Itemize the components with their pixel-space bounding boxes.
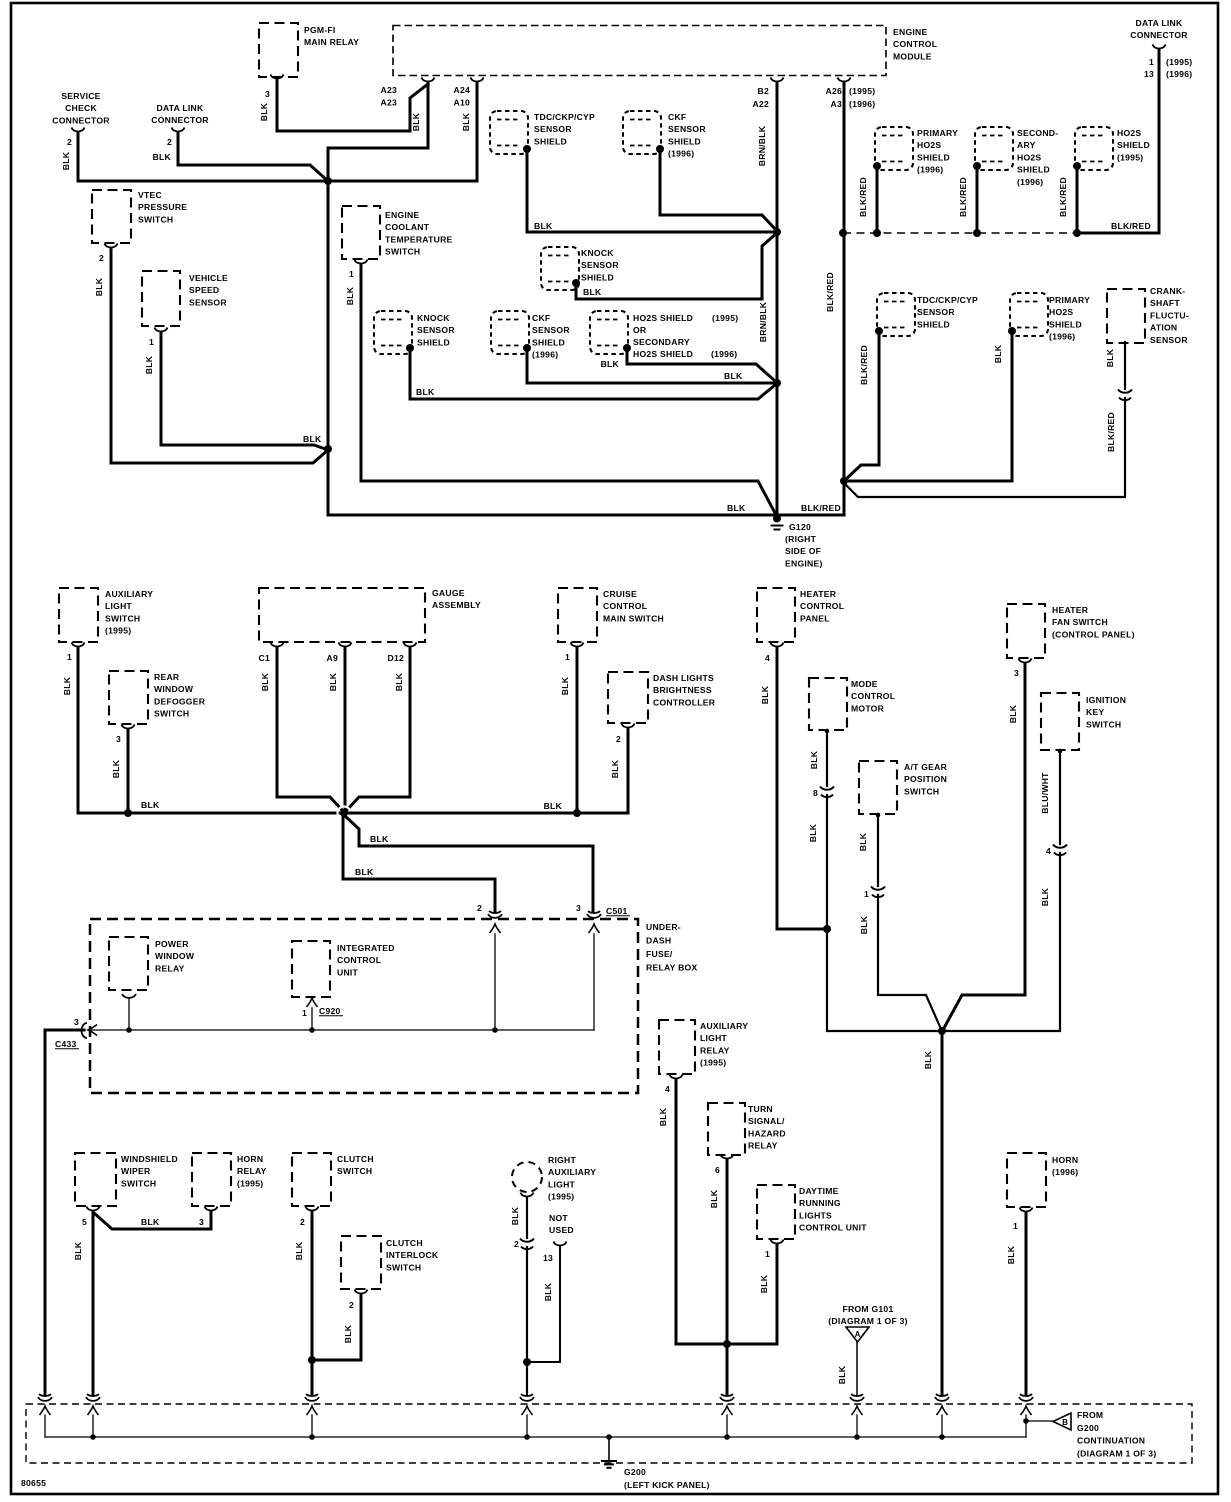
svg-text:CRANK-: CRANK- <box>1150 286 1185 296</box>
svg-text:SWITCH: SWITCH <box>121 1178 156 1188</box>
svg-text:BLK: BLK <box>370 834 389 844</box>
svg-text:CONTROL: CONTROL <box>893 39 937 49</box>
svg-text:SENSOR: SENSOR <box>917 307 955 317</box>
svg-text:DASH LIGHTS: DASH LIGHTS <box>653 673 714 683</box>
svg-text:SWITCH: SWITCH <box>1086 719 1121 729</box>
svg-text:PRIMARY: PRIMARY <box>1049 295 1090 305</box>
svg-text:BLK: BLK <box>1105 348 1115 367</box>
svg-text:BLK: BLK <box>727 503 746 513</box>
svg-text:SERVICE: SERVICE <box>61 91 100 101</box>
svg-text:KNOCK: KNOCK <box>581 248 614 258</box>
svg-text:CLUTCH: CLUTCH <box>337 1154 374 1164</box>
svg-text:BLK: BLK <box>62 676 72 695</box>
svg-text:SHIELD: SHIELD <box>1017 165 1050 175</box>
svg-text:HEATER: HEATER <box>800 589 837 599</box>
svg-text:1: 1 <box>1013 1221 1018 1231</box>
svg-text:HO2S SHIELD: HO2S SHIELD <box>633 313 693 323</box>
svg-text:2: 2 <box>349 1300 354 1310</box>
svg-text:C501: C501 <box>606 906 628 916</box>
svg-text:(1996): (1996) <box>917 165 943 175</box>
svg-text:DATA LINK: DATA LINK <box>157 103 205 113</box>
svg-text:(RIGHT: (RIGHT <box>785 534 817 544</box>
svg-text:BLK/RED: BLK/RED <box>1058 177 1068 217</box>
svg-text:RELAY: RELAY <box>748 1141 778 1151</box>
svg-text:AUXILIARY: AUXILIARY <box>548 1167 596 1177</box>
svg-text:BLK/RED: BLK/RED <box>858 177 868 217</box>
svg-text:BLK: BLK <box>601 359 620 369</box>
svg-text:HORN: HORN <box>1052 1155 1078 1165</box>
svg-text:SHAFT: SHAFT <box>1150 298 1180 308</box>
svg-text:G200: G200 <box>1077 1423 1099 1433</box>
svg-text:6: 6 <box>715 1165 720 1175</box>
svg-text:CHECK: CHECK <box>65 103 97 113</box>
svg-text:G120: G120 <box>789 522 811 532</box>
svg-text:BLU/WHT: BLU/WHT <box>1040 772 1050 814</box>
svg-text:BLK/RED: BLK/RED <box>958 177 968 217</box>
svg-text:BLK: BLK <box>303 434 322 444</box>
svg-text:BLK: BLK <box>141 1217 160 1227</box>
svg-text:BLK: BLK <box>993 344 1003 363</box>
svg-text:BLK: BLK <box>859 915 869 934</box>
svg-text:A23: A23 <box>380 98 397 108</box>
svg-text:HO2S SHIELD: HO2S SHIELD <box>633 349 693 359</box>
svg-text:BLK: BLK <box>610 759 620 778</box>
svg-text:RELAY: RELAY <box>237 1166 267 1176</box>
svg-text:INTEGRATED: INTEGRATED <box>337 943 395 953</box>
svg-text:BLK: BLK <box>61 151 71 170</box>
svg-text:BLK: BLK <box>724 371 743 381</box>
svg-text:(1996): (1996) <box>668 149 694 159</box>
svg-text:SENSOR: SENSOR <box>668 124 706 134</box>
svg-text:PANEL: PANEL <box>800 613 830 623</box>
svg-text:SHIELD: SHIELD <box>668 136 701 146</box>
svg-text:VEHICLE: VEHICLE <box>189 273 228 283</box>
svg-text:SWITCH: SWITCH <box>138 214 173 224</box>
svg-text:3: 3 <box>199 1217 204 1227</box>
svg-text:BLK: BLK <box>543 1282 553 1301</box>
svg-text:HO2S: HO2S <box>917 140 941 150</box>
svg-text:SENSOR: SENSOR <box>532 325 570 335</box>
svg-text:UNIT: UNIT <box>337 967 359 977</box>
svg-text:BLK: BLK <box>260 672 270 691</box>
svg-text:BLK: BLK <box>808 823 818 842</box>
svg-text:SECOND-: SECOND- <box>1017 128 1058 138</box>
svg-text:ATION: ATION <box>1150 323 1177 333</box>
svg-text:2: 2 <box>616 734 621 744</box>
svg-text:FROM G101: FROM G101 <box>843 1304 894 1314</box>
svg-text:1: 1 <box>565 652 570 662</box>
svg-text:C433: C433 <box>55 1039 77 1049</box>
svg-text:CRUISE: CRUISE <box>603 589 637 599</box>
svg-text:2: 2 <box>514 1239 519 1249</box>
svg-text:A/T GEAR: A/T GEAR <box>904 762 948 772</box>
svg-text:SHIELD: SHIELD <box>1049 319 1082 329</box>
svg-text:SWITCH: SWITCH <box>385 247 420 257</box>
svg-text:BLK: BLK <box>544 801 563 811</box>
svg-text:WINDOW: WINDOW <box>155 951 195 961</box>
svg-text:1: 1 <box>864 889 869 899</box>
svg-text:COOLANT: COOLANT <box>385 222 430 232</box>
svg-text:BLK: BLK <box>153 152 172 162</box>
svg-text:13: 13 <box>1144 69 1154 79</box>
svg-text:BLK: BLK <box>394 672 404 691</box>
svg-text:TEMPERATURE: TEMPERATURE <box>385 234 453 244</box>
svg-text:CONTROL: CONTROL <box>800 601 844 611</box>
svg-text:CONTROL: CONTROL <box>337 955 381 965</box>
svg-text:BLK: BLK <box>809 750 819 769</box>
svg-text:BRN/BLK: BRN/BLK <box>758 301 768 342</box>
svg-text:A: A <box>855 1330 861 1339</box>
svg-text:USED: USED <box>549 1225 574 1235</box>
svg-text:BLK/RED: BLK/RED <box>801 503 841 513</box>
svg-text:BLK: BLK <box>411 112 421 131</box>
svg-text:HO2S: HO2S <box>1049 307 1073 317</box>
svg-text:GAUGE: GAUGE <box>432 588 465 598</box>
svg-text:KNOCK: KNOCK <box>417 313 450 323</box>
svg-text:(1995): (1995) <box>548 1192 574 1202</box>
svg-text:2: 2 <box>67 137 72 147</box>
svg-text:CONTROL: CONTROL <box>851 691 895 701</box>
svg-text:PRIMARY: PRIMARY <box>917 128 958 138</box>
svg-text:BLK: BLK <box>510 1206 520 1225</box>
svg-text:OR: OR <box>633 325 647 335</box>
svg-text:1: 1 <box>149 337 154 347</box>
svg-text:BLK: BLK <box>923 1050 933 1069</box>
svg-text:AUXILIARY: AUXILIARY <box>105 589 153 599</box>
svg-text:SHIELD: SHIELD <box>581 272 614 282</box>
svg-text:BLK: BLK <box>560 676 570 695</box>
svg-text:ENGINE: ENGINE <box>385 210 419 220</box>
svg-text:(1995): (1995) <box>1117 152 1143 162</box>
svg-text:SWITCH: SWITCH <box>105 613 140 623</box>
svg-text:RELAY BOX: RELAY BOX <box>646 963 697 973</box>
svg-text:(1995): (1995) <box>105 626 131 636</box>
svg-text:SPEED: SPEED <box>189 285 219 295</box>
svg-text:SIDE OF: SIDE OF <box>785 546 821 556</box>
svg-text:5: 5 <box>82 1217 87 1227</box>
svg-text:2: 2 <box>167 137 172 147</box>
svg-text:BLK: BLK <box>1008 704 1018 723</box>
svg-text:BLK: BLK <box>355 867 374 877</box>
svg-text:RELAY: RELAY <box>155 963 185 973</box>
svg-text:LIGHT: LIGHT <box>700 1033 728 1043</box>
svg-text:C920: C920 <box>319 1006 341 1016</box>
svg-text:BLK: BLK <box>1040 887 1050 906</box>
svg-text:4: 4 <box>1046 846 1051 856</box>
svg-text:TDC/CKP/CYP: TDC/CKP/CYP <box>917 295 978 305</box>
svg-text:4: 4 <box>765 653 770 663</box>
svg-text:C1: C1 <box>259 653 271 663</box>
svg-text:ASSEMBLY: ASSEMBLY <box>432 600 481 610</box>
svg-text:G200: G200 <box>624 1467 646 1477</box>
svg-text:FLUCTU-: FLUCTU- <box>1150 310 1189 320</box>
svg-text:CONTROL: CONTROL <box>603 601 647 611</box>
svg-text:2: 2 <box>477 903 482 913</box>
svg-text:SHIELD: SHIELD <box>917 319 950 329</box>
svg-text:1: 1 <box>302 1008 307 1018</box>
svg-text:3: 3 <box>265 89 270 99</box>
svg-text:VTEC: VTEC <box>138 190 162 200</box>
svg-text:B: B <box>1062 1418 1068 1427</box>
svg-text:BLK: BLK <box>144 355 154 374</box>
svg-text:IGNITION: IGNITION <box>1086 695 1126 705</box>
svg-text:BLK: BLK <box>111 759 121 778</box>
svg-text:CONNECTOR: CONNECTOR <box>151 115 209 125</box>
svg-text:(1996): (1996) <box>532 350 558 360</box>
svg-text:RIGHT: RIGHT <box>548 1155 576 1165</box>
svg-text:3: 3 <box>1014 668 1019 678</box>
svg-text:BLK: BLK <box>94 277 104 296</box>
svg-text:B2: B2 <box>758 86 770 96</box>
svg-text:SWITCH: SWITCH <box>904 786 939 796</box>
svg-text:RUNNING: RUNNING <box>799 1198 841 1208</box>
svg-text:(DIAGRAM 1 OF 3): (DIAGRAM 1 OF 3) <box>828 1316 907 1326</box>
svg-text:BRIGHTNESS: BRIGHTNESS <box>653 685 712 695</box>
svg-text:BLK/RED: BLK/RED <box>859 345 869 385</box>
svg-text:BLK: BLK <box>759 1274 769 1293</box>
svg-text:(1996): (1996) <box>711 349 737 359</box>
svg-text:MODE: MODE <box>851 679 878 689</box>
svg-text:BLK: BLK <box>658 1107 668 1126</box>
svg-text:2: 2 <box>300 1217 305 1227</box>
svg-text:1: 1 <box>1149 57 1154 67</box>
svg-text:MOTOR: MOTOR <box>851 703 885 713</box>
svg-text:CONTROLLER: CONTROLLER <box>653 697 716 707</box>
svg-text:3: 3 <box>74 1017 79 1027</box>
svg-text:(CONTROL PANEL): (CONTROL PANEL) <box>1052 629 1135 639</box>
svg-text:PGM-FI: PGM-FI <box>304 25 336 35</box>
svg-text:(1995): (1995) <box>237 1178 263 1188</box>
svg-text:BLK: BLK <box>858 832 868 851</box>
svg-text:PRESSURE: PRESSURE <box>138 202 187 212</box>
svg-text:RELAY: RELAY <box>700 1045 730 1055</box>
svg-text:MAIN SWITCH: MAIN SWITCH <box>603 613 664 623</box>
svg-text:2: 2 <box>99 253 104 263</box>
svg-text:LIGHTS: LIGHTS <box>799 1210 832 1220</box>
svg-text:UNDER-: UNDER- <box>646 922 681 932</box>
svg-text:WIPER: WIPER <box>121 1166 151 1176</box>
svg-text:BLK/RED: BLK/RED <box>1106 412 1116 452</box>
svg-text:HO2S: HO2S <box>1117 128 1141 138</box>
svg-text:DASH: DASH <box>646 936 671 946</box>
svg-text:SENSOR: SENSOR <box>1150 335 1188 345</box>
svg-text:3: 3 <box>576 903 581 913</box>
svg-text:ENGINE): ENGINE) <box>785 558 823 568</box>
svg-text:FAN SWITCH: FAN SWITCH <box>1052 617 1108 627</box>
svg-text:BLK: BLK <box>837 1365 847 1384</box>
svg-text:(1996): (1996) <box>1052 1167 1078 1177</box>
svg-text:(1995): (1995) <box>849 86 875 96</box>
svg-text:SENSOR: SENSOR <box>189 297 227 307</box>
svg-text:BLK: BLK <box>328 672 338 691</box>
svg-text:SENSOR: SENSOR <box>534 124 572 134</box>
svg-text:HO2S: HO2S <box>1017 152 1041 162</box>
svg-text:(1995): (1995) <box>712 313 738 323</box>
svg-text:SIGNAL/: SIGNAL/ <box>748 1116 785 1126</box>
svg-text:BLK: BLK <box>294 1241 304 1260</box>
svg-text:D12: D12 <box>387 653 404 663</box>
svg-text:(1995): (1995) <box>1166 57 1192 67</box>
svg-text:CONTINUATION: CONTINUATION <box>1077 1436 1145 1446</box>
svg-text:TURN: TURN <box>748 1104 773 1114</box>
svg-text:BLK/RED: BLK/RED <box>825 272 835 312</box>
svg-text:3: 3 <box>116 734 121 744</box>
svg-text:BLK: BLK <box>1006 1245 1016 1264</box>
svg-text:BLK: BLK <box>259 102 269 121</box>
svg-text:BLK: BLK <box>343 1324 353 1343</box>
svg-text:BLK: BLK <box>416 387 435 397</box>
svg-text:BLK: BLK <box>141 800 160 810</box>
svg-text:BLK: BLK <box>73 1241 83 1260</box>
svg-text:A24: A24 <box>453 85 470 95</box>
svg-text:CONNECTOR: CONNECTOR <box>52 115 110 125</box>
svg-text:SHIELD: SHIELD <box>532 337 565 347</box>
svg-text:BLK: BLK <box>461 112 471 131</box>
svg-text:FUSE/: FUSE/ <box>646 949 673 959</box>
svg-text:(1996): (1996) <box>1017 177 1043 187</box>
svg-text:BLK: BLK <box>583 287 602 297</box>
svg-text:CONTROL UNIT: CONTROL UNIT <box>799 1223 867 1233</box>
svg-text:(1996): (1996) <box>1049 332 1075 342</box>
svg-text:HEATER: HEATER <box>1052 605 1089 615</box>
svg-text:SHIELD: SHIELD <box>1117 140 1150 150</box>
svg-text:NOT: NOT <box>549 1213 568 1223</box>
svg-text:4: 4 <box>665 1084 670 1094</box>
svg-text:1: 1 <box>67 652 72 662</box>
svg-text:POSITION: POSITION <box>904 774 947 784</box>
svg-text:(1996): (1996) <box>849 99 875 109</box>
svg-text:8: 8 <box>813 788 818 798</box>
svg-text:BLK: BLK <box>345 286 355 305</box>
svg-text:MODULE: MODULE <box>893 51 932 61</box>
svg-text:BLK: BLK <box>760 685 770 704</box>
svg-text:CKF: CKF <box>532 313 550 323</box>
svg-text:(1995): (1995) <box>700 1058 726 1068</box>
svg-text:BRN/BLK: BRN/BLK <box>757 125 767 166</box>
svg-text:DAYTIME: DAYTIME <box>799 1186 839 1196</box>
svg-text:SHIELD: SHIELD <box>534 136 567 146</box>
svg-text:SHIELD: SHIELD <box>417 337 450 347</box>
svg-text:DEFOGGER: DEFOGGER <box>154 696 206 706</box>
svg-text:13: 13 <box>543 1253 553 1263</box>
svg-text:HAZARD: HAZARD <box>748 1128 786 1138</box>
svg-text:A9: A9 <box>327 653 339 663</box>
svg-text:(LEFT KICK PANEL): (LEFT KICK PANEL) <box>624 1480 710 1490</box>
svg-text:A22: A22 <box>752 99 769 109</box>
svg-text:80655: 80655 <box>21 1478 46 1488</box>
svg-text:KEY: KEY <box>1086 707 1104 717</box>
svg-text:1: 1 <box>765 1249 770 1259</box>
svg-text:SWITCH: SWITCH <box>386 1262 421 1272</box>
svg-text:SWITCH: SWITCH <box>337 1166 372 1176</box>
svg-text:MAIN RELAY: MAIN RELAY <box>304 37 359 47</box>
svg-text:SHIELD: SHIELD <box>917 152 950 162</box>
svg-text:LIGHT: LIGHT <box>105 601 133 611</box>
svg-text:REAR: REAR <box>154 672 180 682</box>
svg-text:WINDSHIELD: WINDSHIELD <box>121 1154 178 1164</box>
svg-text:BLK/RED: BLK/RED <box>1111 221 1151 231</box>
svg-text:A10: A10 <box>453 98 470 108</box>
svg-text:(1996): (1996) <box>1166 69 1192 79</box>
svg-text:SENSOR: SENSOR <box>417 325 455 335</box>
svg-text:SECONDARY: SECONDARY <box>633 337 690 347</box>
svg-text:CLUTCH: CLUTCH <box>386 1238 423 1248</box>
svg-text:(DIAGRAM 1 OF 3): (DIAGRAM 1 OF 3) <box>1077 1448 1156 1458</box>
svg-text:WINDOW: WINDOW <box>154 684 194 694</box>
svg-text:LIGHT: LIGHT <box>548 1179 576 1189</box>
svg-text:BLK: BLK <box>534 221 553 231</box>
svg-text:TDC/CKP/CYP: TDC/CKP/CYP <box>534 112 595 122</box>
svg-text:DATA LINK: DATA LINK <box>1136 18 1184 28</box>
svg-text:POWER: POWER <box>155 939 189 949</box>
svg-text:ENGINE: ENGINE <box>893 27 927 37</box>
svg-text:HORN: HORN <box>237 1154 263 1164</box>
svg-text:FROM: FROM <box>1077 1410 1103 1420</box>
svg-text:SWITCH: SWITCH <box>154 709 189 719</box>
svg-text:SENSOR: SENSOR <box>581 260 619 270</box>
svg-text:BLK: BLK <box>709 1189 719 1208</box>
svg-text:A3: A3 <box>831 99 843 109</box>
svg-text:ARY: ARY <box>1017 140 1036 150</box>
svg-text:A23: A23 <box>380 85 397 95</box>
svg-text:CONNECTOR: CONNECTOR <box>1130 30 1188 40</box>
svg-text:1: 1 <box>349 269 354 279</box>
svg-text:INTERLOCK: INTERLOCK <box>386 1250 439 1260</box>
svg-text:A26: A26 <box>825 86 842 96</box>
svg-text:AUXILIARY: AUXILIARY <box>700 1021 748 1031</box>
svg-text:CKF: CKF <box>668 112 686 122</box>
